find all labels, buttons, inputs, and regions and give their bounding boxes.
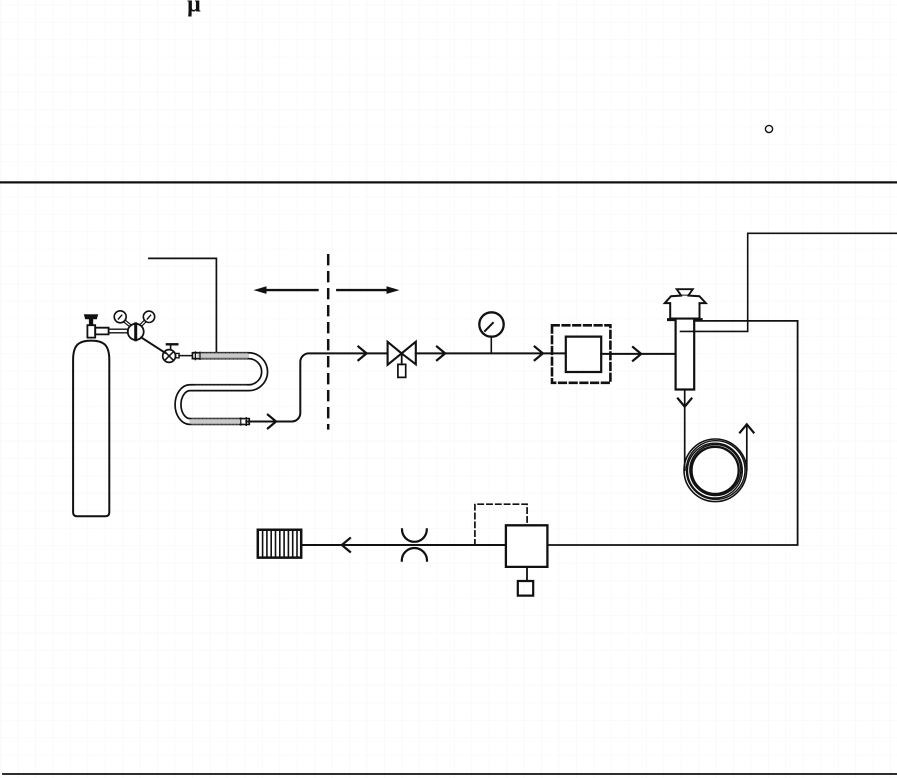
shutoff valve handle — [170, 345, 172, 350]
shutoff valve — [163, 350, 176, 363]
flow arrow left — [342, 538, 350, 552]
flow arrow before filter — [535, 347, 543, 361]
wire valve to filter — [416, 352, 566, 354]
injector cap — [665, 296, 706, 319]
wire valve to coil tube — [179, 355, 195, 357]
needle valve V1 — [388, 342, 402, 365]
injector body — [676, 320, 695, 390]
pressure gauge — [479, 312, 503, 336]
tube hatching shading — [192, 356, 248, 422]
dashed filter enclosure — [552, 325, 610, 383]
regulator body — [128, 324, 144, 340]
filter box — [566, 337, 601, 372]
tube regulator to shutoff valve — [141, 338, 165, 353]
detector stem — [526, 567, 528, 581]
flow arrow up — [740, 424, 754, 432]
gauge right stem — [140, 320, 146, 326]
oven loop line — [547, 321, 797, 545]
regulator gauge left — [114, 311, 126, 323]
flow arrow after S-tube — [268, 415, 276, 429]
gauge left stem — [123, 320, 131, 327]
wire injector to column — [684, 390, 686, 471]
cylinder valve handle — [84, 315, 98, 319]
regulator gauge right — [143, 311, 154, 322]
wire S-tube to needle valve — [246, 353, 387, 421]
wire column outlet — [746, 425, 748, 471]
direction arrow right — [337, 289, 387, 291]
tube end cap marks — [194, 352, 196, 360]
flow arrow down — [678, 399, 692, 407]
degree symbol — [765, 125, 772, 132]
left label pointer — [149, 258, 217, 351]
column coil — [684, 439, 747, 502]
flow meter striped box — [258, 530, 301, 558]
gas cylinder — [73, 341, 109, 517]
cylinder valve body — [87, 325, 95, 337]
gauge stem — [490, 337, 492, 354]
injector cap knob — [677, 289, 693, 295]
direction arrow left — [266, 289, 318, 291]
heat exchanger S-tube — [178, 356, 265, 422]
dashed detector bypass — [475, 504, 527, 545]
flow arrow after valve — [437, 347, 445, 361]
flow arrow before injector — [633, 347, 641, 361]
wire filter to injector — [601, 353, 675, 355]
injector label pointer — [681, 233, 897, 331]
svg-text:µ: µ — [187, 0, 201, 18]
detector electrode box — [518, 581, 533, 596]
restrictor arcs — [402, 529, 427, 541]
dashed boundary line — [327, 255, 330, 428]
vent line — [301, 544, 506, 546]
bottom rule — [3, 773, 897, 775]
shutoff valve outlet — [176, 353, 180, 357]
regulator inlet pipe — [109, 329, 128, 333]
detector box — [506, 525, 548, 567]
flow arrow before needle valve — [358, 347, 366, 361]
cylinder valve arm — [95, 328, 108, 335]
needle valve stem — [401, 353, 403, 364]
top rule — [0, 181, 897, 183]
